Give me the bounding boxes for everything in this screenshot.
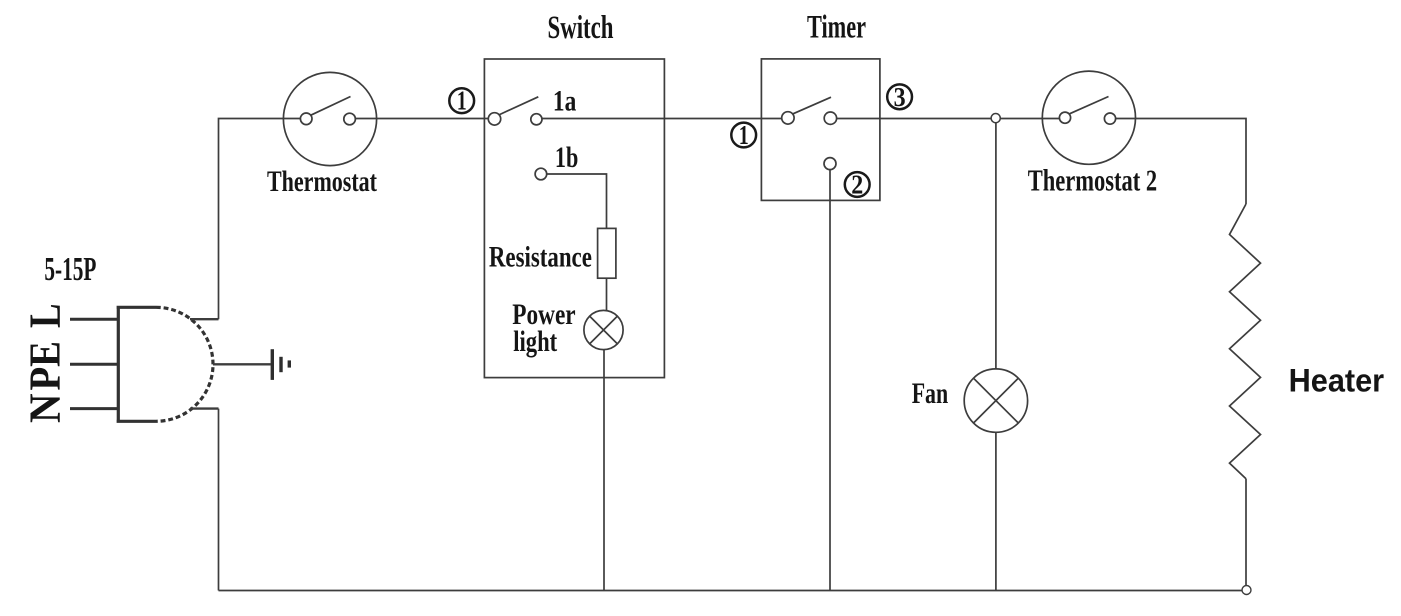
wire: Timer right contact through node to Thermostat 2: [836, 118, 1059, 120]
node: junction circle after timer: [991, 114, 1000, 123]
timer box T1 outline: [761, 59, 880, 201]
switch box S1 outline: [484, 59, 664, 378]
node label 1 at timer input: [731, 120, 756, 150]
wire: timer contact 2 to bottom bus: [829, 170, 831, 591]
wire: node down to fan: [995, 123, 997, 369]
thermostat TH1 right contact: [344, 113, 356, 125]
svg-text:light: light: [513, 326, 557, 358]
switch S1 arm 1a: [500, 97, 539, 115]
timer T1 switch arm: [793, 97, 831, 114]
svg-text:5-15P: 5-15P: [44, 251, 96, 288]
plug P1 prong N: [70, 407, 118, 410]
wire: resistance to power light: [606, 278, 608, 310]
wire: plug earth pin to ground: [213, 363, 271, 365]
svg-text:Fan: Fan: [912, 378, 949, 410]
svg-text:Thermostat: Thermostat: [267, 165, 377, 198]
plug P1 prong L: [70, 318, 118, 321]
node label 3 at timer output: [887, 82, 912, 112]
wire: fan to bottom bus: [995, 432, 997, 590]
thermostat TH1 switch arm: [311, 97, 351, 116]
wire: Switch 1a to Timer left contact: [542, 118, 782, 120]
svg-text:1b: 1b: [555, 141, 578, 174]
wire: top bus left segment from plug riser corner to Thermostat: [219, 119, 301, 320]
svg-text:PE: PE: [21, 341, 70, 391]
switch S1 contact 1b: [535, 168, 547, 180]
svg-text:Heater: Heater: [1289, 363, 1385, 399]
svg-text:Switch: Switch: [548, 10, 614, 46]
thermostat TH2 left contact: [1059, 112, 1070, 123]
heater element zigzag: [1230, 204, 1261, 479]
timer T1 left contact: [782, 112, 794, 124]
wire: Thermostat 2 to top-right corner down to heater top lead: [1116, 119, 1247, 205]
thermostat TH2 switch arm: [1070, 97, 1109, 114]
timer T1 lower contact 2: [824, 158, 836, 170]
wire: left vertical from plug bottom to bottom bus: [218, 409, 220, 591]
node: bottom-right terminal circle: [1242, 586, 1251, 595]
thermostat TH1 left contact: [300, 113, 312, 125]
svg-text:2: 2: [851, 170, 863, 200]
wire: heater bottom lead: [1245, 479, 1247, 586]
fan M1 cross: [974, 378, 1019, 423]
wire: plug top stub to left vertical riser: [190, 318, 219, 320]
wire: power light to bottom bus: [603, 350, 605, 591]
lamp HL1 cross: [590, 316, 618, 344]
plug P1 5-15P body: [70, 307, 213, 421]
lamp HL1 Power light circle: [584, 310, 623, 349]
wire: bottom bus: [219, 590, 1247, 592]
thermostat TH2 body circle: [1042, 71, 1135, 164]
svg-text:Timer: Timer: [807, 10, 866, 46]
svg-text:1a: 1a: [553, 85, 576, 118]
svg-text:3: 3: [894, 82, 906, 112]
wire: plug bottom stub: [190, 407, 219, 409]
node label 2 at timer lower contact: [845, 170, 870, 200]
ground symbol PE: [272, 349, 289, 380]
wire: 1b to resistance: [547, 174, 607, 228]
fan M1 body circle: [964, 369, 1027, 432]
timer T1 right contact: [824, 112, 836, 124]
svg-text:1: 1: [739, 120, 749, 150]
switch S1 contact 1a left: [488, 113, 500, 125]
svg-text:Thermostat 2: Thermostat 2: [1028, 163, 1158, 198]
svg-text:Resistance: Resistance: [489, 241, 592, 273]
thermostat TH2 right contact: [1104, 113, 1115, 124]
svg-text:N: N: [21, 393, 70, 423]
resistor R1 Resistance body: [598, 228, 616, 278]
plug P1 prong PE: [70, 363, 118, 366]
svg-text:L: L: [21, 304, 70, 329]
wire: Thermostat to Switch contact 1a: [355, 118, 488, 120]
svg-text:1: 1: [457, 86, 467, 116]
node label 1 at switch input: [449, 86, 474, 116]
thermostat TH1 body circle: [283, 72, 376, 165]
plug P1 arc (dashed): [156, 307, 213, 421]
switch S1 contact 1a right: [531, 114, 542, 125]
